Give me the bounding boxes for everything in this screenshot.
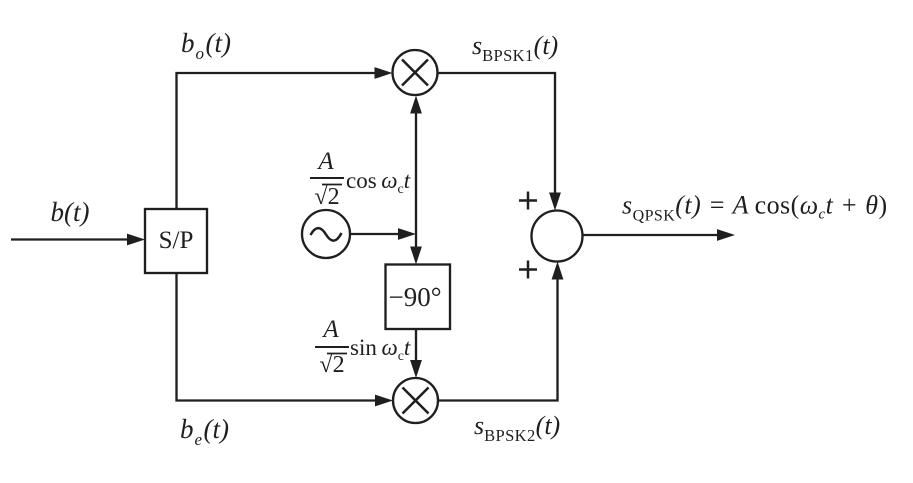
svg-text:−90°: −90°	[388, 282, 441, 312]
wire: carrier node down to -90 phase shifter	[410, 234, 422, 265]
wire: oscillator output to carrier node	[351, 228, 417, 240]
svg-text:A: A	[316, 148, 334, 175]
wire: input b(t) into S/P	[11, 234, 145, 246]
plus sign top input of summer	[519, 192, 537, 210]
wire: S/P top output to multiplier M1	[177, 67, 393, 209]
wire: carrier node up to multiplier M1	[410, 96, 422, 235]
svg-text:√2: √2	[319, 352, 344, 378]
block -90 degree phase shifter	[386, 265, 451, 330]
wire: M1 output to summer (top branch s_BPSK1)	[438, 73, 561, 211]
plus sign bottom input of summer	[519, 261, 537, 279]
svg-text:be(t): be(t)	[180, 414, 229, 449]
svg-text:sin ωct: sin ωct	[350, 335, 411, 364]
wire: S/P bottom output to multiplier M2	[177, 273, 394, 406]
svg-text:cos ωct: cos ωct	[346, 168, 411, 197]
svg-text:bo(t): bo(t)	[181, 28, 231, 63]
label A/sqrt2 sin wc t	[315, 316, 411, 378]
wire: M2 output to summer (bottom branch s_BPSK2)	[438, 262, 563, 401]
label A/sqrt2 cos wc t	[310, 148, 411, 210]
oscillator: carrier source	[302, 210, 350, 258]
svg-text:S/P: S/P	[159, 227, 194, 254]
multiplier M2 (bottom mixer)	[393, 378, 438, 423]
multiplier M1 (top mixer)	[393, 50, 438, 95]
svg-text:A: A	[321, 316, 339, 343]
svg-text:sBPSK1(t): sBPSK1(t)	[472, 31, 558, 65]
block S/P serial-to-parallel converter	[145, 209, 207, 273]
svg-text:sBPSK2(t): sBPSK2(t)	[474, 411, 560, 445]
svg-text:b(t): b(t)	[51, 197, 90, 227]
summer (adder)	[532, 211, 583, 262]
svg-text:sQPSK(t) = A cos(ωct + θ): sQPSK(t) = A cos(ωct + θ)	[622, 191, 888, 225]
wire: phase shifter output to multiplier M2	[410, 329, 422, 378]
wire: summer output s_QPSK	[583, 229, 736, 241]
svg-text:√2: √2	[314, 184, 339, 210]
